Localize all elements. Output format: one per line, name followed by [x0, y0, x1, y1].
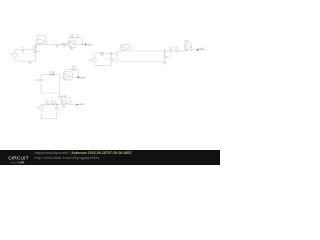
wire V3 top	[41, 104, 43, 105]
svg-text:V3: V3	[36, 106, 40, 110]
svg-text:R6: R6	[100, 53, 104, 57]
ground on input wire	[21, 49, 25, 52]
wire to C6	[165, 50, 175, 52]
op-amp OA4	[121, 44, 130, 51]
svg-text:OA6: OA6	[61, 94, 67, 98]
wire loop right	[59, 75, 61, 93]
op-amp OA6	[61, 98, 70, 106]
svg-text:R10: R10	[51, 100, 56, 104]
wire loop top	[41, 74, 60, 76]
resistor R8	[175, 50, 180, 52]
wire top input	[15, 48, 35, 50]
wire opamp E output	[192, 49, 207, 51]
wire loop bottom	[41, 92, 60, 94]
svg-text:helpyoutodoityourself / Autono: helpyoutodoityourself / Autonom 2023-09-…	[35, 151, 132, 155]
wire feedback up	[67, 38, 69, 44]
resistor R2	[63, 43, 67, 45]
voltage source V3	[40, 106, 44, 110]
net flag out4	[76, 104, 78, 106]
wire to opamp E	[180, 50, 185, 52]
resistor R6	[100, 52, 105, 54]
capacitor C4	[39, 75, 43, 93]
footer bar	[0, 150, 220, 165]
ground below OA2	[70, 47, 73, 50]
wire V2 bottom	[93, 62, 95, 66]
svg-text:in: in	[21, 45, 24, 49]
resistor R5	[71, 69, 76, 71]
svg-text:V2: V2	[88, 58, 92, 62]
svg-text:0: 0	[59, 113, 61, 116]
wire opamp A output	[46, 43, 69, 45]
wire V1 top	[14, 49, 16, 53]
svg-text:out3: out3	[199, 46, 205, 50]
wire top stage3	[94, 52, 121, 53]
capacitor C5	[109, 53, 113, 65]
wire feedback down	[82, 38, 84, 45]
resistor R4	[49, 74, 54, 76]
svg-text:OA1: OA1	[32, 44, 38, 48]
wire bottom stage1	[15, 60, 35, 62]
svg-text:∿∿–LAB: ∿∿–LAB	[11, 161, 25, 165]
node H junction	[56, 104, 58, 106]
resistor R7	[164, 51, 166, 62]
node C junction	[82, 44, 84, 46]
wire feedback3 bottom	[117, 61, 165, 63]
voltage source V1	[13, 53, 17, 57]
wire opamp B output	[76, 43, 87, 45]
svg-text:C4: C4	[35, 78, 39, 82]
capacitor C3	[77, 36, 78, 39]
wire feedback2 down	[77, 70, 79, 78]
wire feedback top	[68, 37, 82, 39]
wire feedback2 up	[64, 70, 66, 74]
node A junction	[35, 49, 37, 51]
svg-text:R3: R3	[71, 33, 75, 37]
node B junction	[61, 44, 63, 46]
ground stage3	[163, 63, 167, 65]
op-amp OA1	[37, 36, 46, 45]
ground stage1	[29, 61, 32, 64]
ground below loop	[58, 93, 62, 98]
capacitor C7	[55, 104, 59, 118]
svg-text:R2: R2	[63, 44, 67, 48]
resistor R9	[45, 103, 50, 105]
svg-text:out1: out1	[88, 42, 94, 46]
svg-text:C6: C6	[169, 46, 173, 50]
svg-text:C7: C7	[59, 107, 63, 111]
ground below OA6	[62, 105, 65, 108]
node D junction	[53, 74, 55, 76]
wire V3 bottom	[41, 110, 43, 119]
net flag node2	[53, 72, 55, 75]
svg-text:C5: C5	[112, 58, 116, 62]
svg-text:out2: out2	[80, 75, 86, 79]
wire V2 top	[93, 53, 95, 58]
wire opamp A input	[35, 44, 37, 49]
net flag out3	[197, 49, 199, 51]
svg-text:V1: V1	[9, 52, 13, 56]
node E junction	[77, 77, 79, 79]
resistor R10	[51, 103, 56, 105]
svg-text:R5: R5	[72, 65, 76, 69]
svg-text:C1: C1	[37, 49, 41, 53]
net flag out2	[78, 76, 80, 78]
svg-text:R7: R7	[166, 55, 170, 59]
op-amp OA5	[185, 43, 192, 51]
wire opamp F output	[68, 104, 77, 106]
wire bottom stage4	[42, 118, 57, 120]
wire V1 bottom	[14, 57, 16, 61]
wire opamp C output	[72, 76, 80, 78]
wire opamp C input	[60, 76, 64, 78]
svg-text:C3: C3	[76, 33, 80, 37]
op-amp OA2	[69, 41, 76, 47]
node F junction	[111, 52, 113, 54]
svg-text:R8: R8	[175, 46, 179, 50]
wire feedback2 top	[65, 69, 78, 71]
voltage source V2	[92, 58, 96, 62]
capacitor C6	[170, 49, 172, 53]
capacitor C1	[33, 49, 37, 61]
ground on wire	[55, 44, 59, 47]
resistor R3	[70, 37, 74, 39]
svg-text:out4: out4	[79, 102, 85, 106]
wire feedback3 left	[116, 52, 118, 62]
wire bottom stage3	[94, 64, 111, 66]
svg-text:http://circuitlab.com/c/5ynqpa: http://circuitlab.com/c/5ynqpay4fttes	[35, 156, 100, 160]
svg-text:R4: R4	[49, 70, 53, 74]
op-amp OA3	[64, 72, 72, 80]
svg-text:R9: R9	[45, 100, 49, 104]
wire top stage4	[42, 103, 62, 105]
net flag out1	[85, 43, 87, 45]
wire opamp D output	[130, 50, 165, 52]
node G junction	[164, 50, 166, 52]
